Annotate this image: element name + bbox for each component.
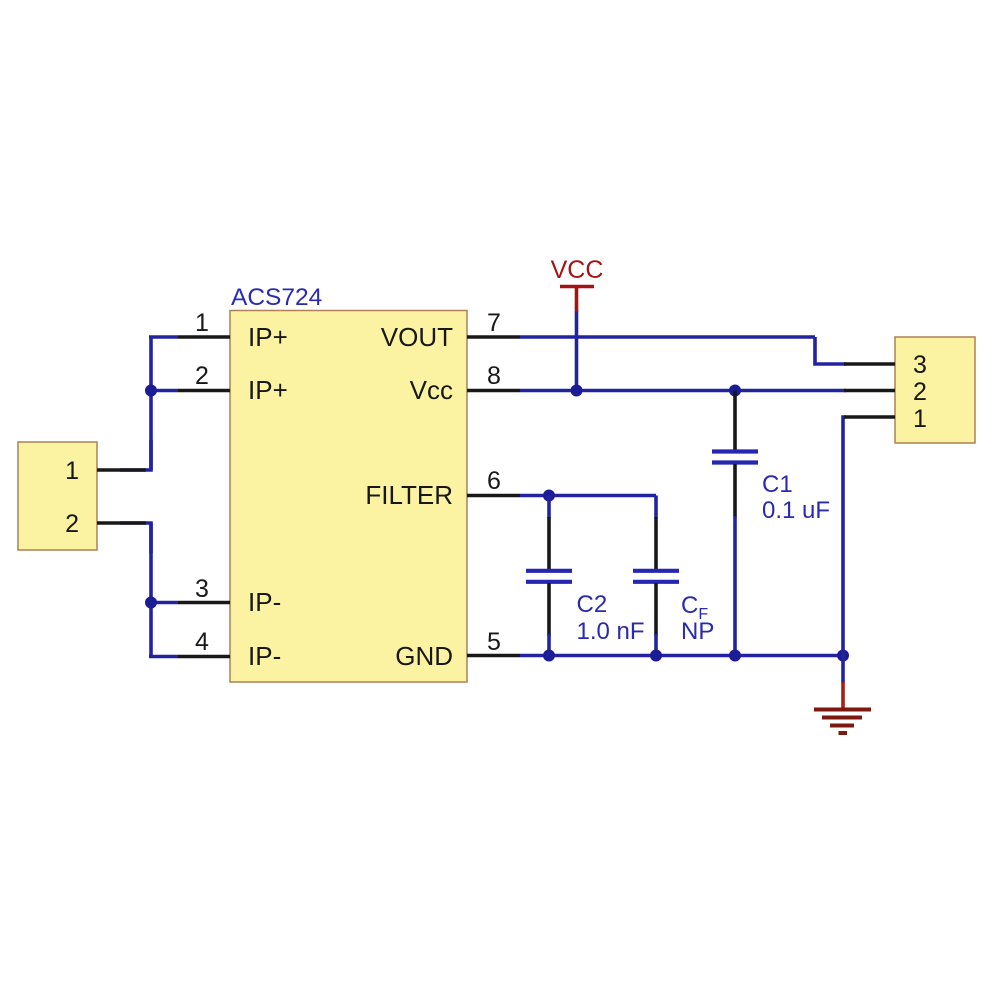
IC U1 body ACS724 xyxy=(230,311,467,683)
svg-text:3: 3 xyxy=(195,575,209,603)
connector J1 pin 2 stub xyxy=(97,521,146,525)
svg-text:0.1 uF: 0.1 uF xyxy=(762,497,830,524)
svg-text:Vcc: Vcc xyxy=(410,375,453,405)
connector J2 pin 2 stub xyxy=(844,389,895,393)
wire net FILTER vertical to CF xyxy=(654,496,658,519)
svg-text:1: 1 xyxy=(913,405,927,433)
svg-text:NP: NP xyxy=(681,618,714,645)
wire CF bottom to GND net xyxy=(654,634,658,656)
svg-text:C2: C2 xyxy=(577,591,608,618)
svg-text:7: 7 xyxy=(487,309,501,337)
connector J2 (right, 3-pin) xyxy=(895,337,975,443)
svg-text:1: 1 xyxy=(65,457,79,485)
junction FILTER at C2 xyxy=(543,490,555,502)
IC pin 7 stub (VOUT) xyxy=(467,335,520,339)
IC pin 6 stub (FILTER) xyxy=(467,494,520,498)
wire FILTER down to C2 xyxy=(547,496,551,519)
wire IP+ pin1 horizontal xyxy=(149,335,178,339)
svg-text:6: 6 xyxy=(487,467,501,495)
IC pin 2 stub xyxy=(178,389,230,393)
wire IP- pin3 horizontal xyxy=(149,601,178,605)
capacitor C1 xyxy=(712,391,758,518)
junction GND at CF xyxy=(650,650,662,662)
connector J1 pin 1 stub xyxy=(97,468,146,472)
svg-text:VOUT: VOUT xyxy=(381,322,453,352)
capacitor CF xyxy=(633,517,679,636)
svg-text:4: 4 xyxy=(195,628,209,656)
wire net VCC horizontal xyxy=(520,389,846,393)
junction VCC at C1 xyxy=(729,385,741,397)
svg-text:2: 2 xyxy=(913,378,927,406)
wire C1 bottom to GND net xyxy=(733,516,737,656)
wire net VOUT horizontal xyxy=(520,335,815,339)
ground symbol xyxy=(814,682,871,733)
junction on IP+ net xyxy=(145,385,157,397)
IC pin 4 stub xyxy=(178,655,230,659)
svg-text:FILTER: FILTER xyxy=(365,480,453,510)
svg-text:2: 2 xyxy=(195,362,209,390)
wire VCC supply vertical xyxy=(575,311,579,391)
IC pin 1 stub xyxy=(178,335,230,339)
connector J1 (left, 2-pin) xyxy=(18,442,97,550)
junction on IP- net xyxy=(145,597,157,609)
svg-text:ACS724: ACS724 xyxy=(231,284,322,311)
wire IP+ pin2 horizontal xyxy=(149,389,178,393)
svg-text:GND: GND xyxy=(395,641,453,671)
svg-text:2: 2 xyxy=(65,510,79,538)
capacitor C2 xyxy=(526,517,572,636)
wire IP- pin4 horizontal xyxy=(149,655,178,659)
wire GND net down to ground symbol xyxy=(841,656,845,684)
junction GND at ground symbol xyxy=(837,650,849,662)
wire net FILTER horizontal xyxy=(520,494,656,498)
junction GND at C2 xyxy=(543,650,555,662)
svg-text:3: 3 xyxy=(913,351,927,379)
IC pin 8 stub (Vcc) xyxy=(467,389,520,393)
IC pin 3 stub xyxy=(178,601,230,605)
wire net J2 pin1 to GND xyxy=(843,417,846,656)
wire net GND horizontal xyxy=(520,654,843,658)
wire J1 pin1 elbow xyxy=(120,440,151,470)
svg-text:IP-: IP- xyxy=(248,587,281,617)
junction GND at C1 xyxy=(729,650,741,662)
svg-text:5: 5 xyxy=(487,628,501,656)
svg-text:1: 1 xyxy=(195,309,209,337)
svg-text:1.0 nF: 1.0 nF xyxy=(577,618,645,645)
VCC supply symbol xyxy=(560,287,594,313)
svg-text:VCC: VCC xyxy=(551,256,604,284)
svg-text:IP-: IP- xyxy=(248,641,281,671)
wire C2 bottom to GND net xyxy=(547,634,551,656)
svg-text:C1: C1 xyxy=(762,471,793,498)
wire net IP- vertical (left of IC) xyxy=(149,523,153,657)
wire J1 pin2 elbow xyxy=(120,523,151,553)
svg-text:8: 8 xyxy=(487,362,501,390)
IC pin 5 stub (GND) xyxy=(467,654,520,658)
svg-text:IP+: IP+ xyxy=(248,322,288,352)
connector J2 pin 1 stub xyxy=(844,415,895,419)
wire net IP+ vertical (left of IC) xyxy=(149,337,153,470)
svg-text:IP+: IP+ xyxy=(248,375,288,405)
junction VCC at supply xyxy=(571,385,583,397)
connector J2 pin 3 stub xyxy=(844,362,895,366)
wire net VOUT jog down xyxy=(815,337,846,364)
